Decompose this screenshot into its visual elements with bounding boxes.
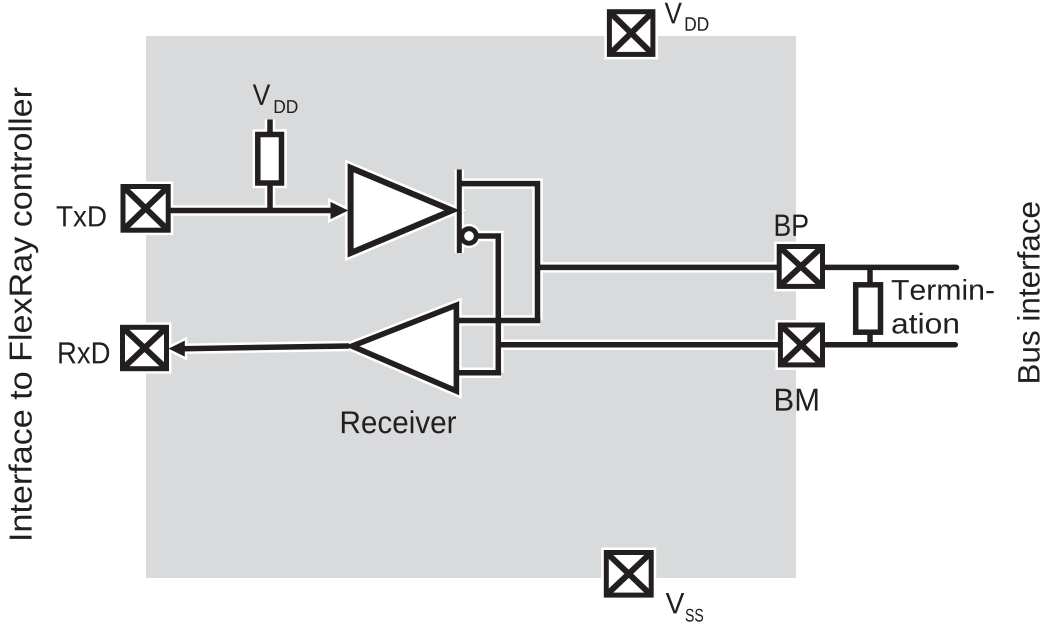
- label Receiver: [342, 410, 456, 433]
- transceiver IC body: [146, 36, 796, 578]
- label VDD top: [665, 3, 709, 31]
- pad BP: [779, 247, 822, 287]
- resistor termination: [856, 285, 881, 332]
- wire BP pad to bus (right): [824, 265, 957, 271]
- pad TxD: [123, 187, 168, 231]
- wire node to BP pad: [538, 265, 780, 271]
- wire receiver output to RxD pad: [169, 341, 350, 357]
- pad VDD top: [609, 12, 653, 55]
- inverter bubble on driver output: [462, 229, 477, 244]
- label BP: [776, 215, 808, 236]
- pad VSS bottom: [606, 553, 651, 596]
- wire receiver input lower to node: [457, 370, 502, 376]
- label BM: [776, 389, 818, 411]
- wire TxD to driver input: [168, 202, 348, 219]
- resistor R1 (pull-up to VDD): [258, 135, 282, 184]
- label TxD: [57, 206, 106, 226]
- wire termination stub bottom: [867, 333, 873, 345]
- pad BM: [780, 325, 822, 365]
- op-amp U2 receiver triangle: [352, 305, 456, 391]
- wire resistor R1 bottom to TxD wire: [267, 184, 273, 213]
- wire receiver input upper to node: [457, 318, 541, 324]
- transistor Q1 gate bar: [457, 170, 462, 254]
- wire bubble to node, down to BM net: [477, 236, 498, 373]
- wire VDD stub above resistor R1: [267, 120, 273, 135]
- wire gate-bar top to node, down to BP net: [459, 184, 537, 321]
- label Bus interface (right, rotated): [1017, 202, 1040, 382]
- wire BM pad to bus (right): [824, 342, 955, 348]
- wire termination stub top: [867, 267, 873, 284]
- pad RxD: [123, 327, 167, 368]
- op-amp U1 driver triangle: [351, 168, 452, 253]
- label VSS bottom: [666, 593, 703, 622]
- wire node to BM pad: [498, 342, 779, 348]
- label Interface to FlexRay controller (left, rotated): [8, 88, 38, 539]
- label RxD: [59, 342, 109, 363]
- white keepout halo layer (decorative): [118, 7, 957, 600]
- label VDD above resistor R1: [253, 85, 298, 114]
- label Termination: [892, 279, 994, 334]
